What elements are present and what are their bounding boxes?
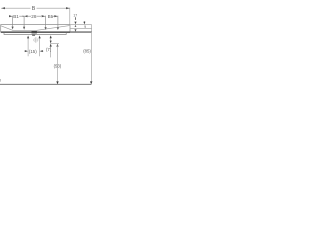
svg-text:28: 28 <box>31 14 37 19</box>
svg-text:B: B <box>32 6 36 12</box>
svg-text:17: 17 <box>73 13 77 17</box>
svg-text:(53): (53) <box>54 63 62 68</box>
svg-text:(85): (85) <box>83 49 91 54</box>
svg-text:9: 9 <box>84 25 86 29</box>
svg-text:(15): (15) <box>29 49 37 54</box>
svg-text:(7): (7) <box>46 47 52 52</box>
svg-text:B1: B1 <box>13 14 19 19</box>
svg-text:8: 8 <box>0 79 1 83</box>
svg-text:B1: B1 <box>48 14 54 19</box>
